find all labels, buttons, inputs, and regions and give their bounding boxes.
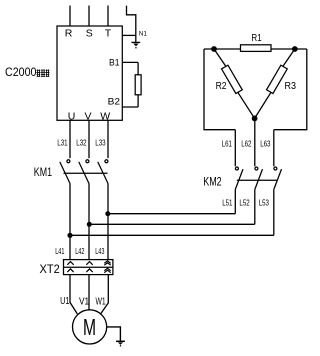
label CJK characters (inverter): [36, 70, 49, 77]
svg-text:L52: L52: [239, 197, 249, 207]
braking resistor body: [135, 75, 141, 95]
node delta top-right junction: [292, 46, 298, 52]
resistor R2 leads: [214, 49, 226, 66]
wire L61 from resistor bank: [234, 130, 236, 167]
ground N1 earth symbol: [131, 42, 140, 48]
VFD U1 box C2000 inverter outline: [57, 26, 122, 120]
svg-text:L63: L63: [260, 139, 270, 149]
KM1 mechanical linkage: [64, 172, 108, 174]
svg-text:L41: L41: [55, 246, 64, 256]
svg-text:KM1: KM1: [34, 165, 52, 179]
wire W1 to motor: [101, 275, 109, 314]
contactor KM2 pole 1: [235, 167, 243, 190]
junction node: [87, 222, 92, 227]
resistor R3 leads: [283, 49, 295, 66]
wire motor frame to ground: [107, 327, 121, 341]
svg-text:L51: L51: [222, 197, 232, 207]
contactor KM2 pole 2: [255, 167, 263, 190]
wire T-phase feeder: [107, 6, 109, 27]
svg-text:L31: L31: [57, 137, 67, 147]
svg-text:M: M: [83, 315, 96, 341]
svg-text:V: V: [84, 110, 91, 122]
svg-text:R3: R3: [285, 81, 297, 92]
wire L32 from VFD output: [88, 120, 90, 158]
svg-text:B1: B1: [109, 57, 120, 67]
wire U1 to motor: [70, 275, 77, 314]
svg-text:L61: L61: [222, 139, 232, 149]
wire L52 across to motor branch: [89, 223, 255, 225]
wire delta left side down: [204, 49, 235, 130]
wire KM2 pole 3 lower: [273, 190, 275, 236]
wire S-phase feeder: [88, 6, 90, 27]
wire L31 from VFD output: [69, 120, 71, 158]
contactor KM1 pole 3: [98, 160, 108, 184]
svg-text:R2: R2: [216, 81, 227, 92]
KM2 mechanical linkage: [237, 179, 277, 181]
wire VFD PE terminal to ground: [122, 34, 136, 36]
XT2 terminal clamp marks: [67, 261, 110, 273]
motor M circle: [73, 310, 107, 344]
svg-text:N1: N1: [139, 30, 148, 37]
svg-text:L33: L33: [95, 137, 105, 147]
wire L63 from resistor bank: [273, 130, 275, 167]
wire L62 from resistor bank: [254, 118, 256, 166]
wire KM1 pole 3 to terminal XT2: [107, 184, 109, 260]
svg-text:B2: B2: [108, 96, 120, 107]
wire delta top-left: [204, 48, 241, 50]
wire delta right side down: [274, 49, 307, 130]
svg-text:L43: L43: [95, 246, 104, 256]
contactor KM1 pole 1: [60, 160, 70, 184]
wire R-phase feeder: [69, 6, 71, 27]
terminal block XT2 outline: [64, 260, 113, 275]
wire B1 terminal: [122, 61, 138, 63]
wire L53 across to motor branch: [70, 234, 274, 236]
svg-text:C2000: C2000: [5, 65, 37, 79]
resistor R2 body: [222, 65, 243, 93]
svg-text:L53: L53: [259, 197, 269, 207]
wire KM2 pole 1 lower: [234, 190, 236, 214]
wire KM1 pole 2 to terminal XT2: [88, 184, 90, 260]
junction node: [67, 233, 72, 238]
wire top stub to ground: [127, 6, 136, 43]
node delta bottom junction: [252, 116, 258, 122]
node delta top-left junction: [211, 46, 217, 52]
svg-text:XT2: XT2: [40, 262, 61, 276]
svg-text:L42: L42: [75, 246, 84, 256]
wire L33 from VFD output: [107, 120, 109, 158]
wire KM2 pole 2 lower: [254, 190, 256, 225]
svg-text:KM2: KM2: [203, 175, 222, 189]
wire B2 terminal: [122, 106, 138, 108]
svg-text:W: W: [100, 110, 110, 122]
wire braking resistor to B2: [137, 95, 139, 107]
svg-text:T: T: [105, 28, 112, 40]
svg-text:W1: W1: [96, 296, 106, 307]
svg-text:R: R: [65, 28, 73, 40]
contactor KM2 pole 3: [274, 167, 282, 190]
svg-text:L62: L62: [241, 139, 251, 149]
resistor R1 body: [241, 45, 272, 52]
svg-text:S: S: [86, 28, 93, 40]
wire delta top-right: [271, 48, 307, 50]
resistor R3 body: [267, 65, 288, 93]
junction node: [105, 211, 110, 216]
wire B1 to braking resistor: [137, 62, 139, 74]
svg-text:L32: L32: [76, 137, 86, 147]
svg-text:V1: V1: [79, 296, 90, 307]
ground motor earth symbol: [116, 341, 125, 346]
svg-text:U1: U1: [60, 296, 70, 307]
svg-text:U: U: [68, 110, 76, 122]
wire KM1 pole 1 to terminal XT2: [69, 184, 71, 260]
wire V1 to motor: [88, 275, 90, 310]
wire L51 across to motor branch: [108, 213, 236, 215]
svg-text:R1: R1: [251, 33, 262, 44]
contactor KM1 pole 2: [79, 160, 89, 184]
